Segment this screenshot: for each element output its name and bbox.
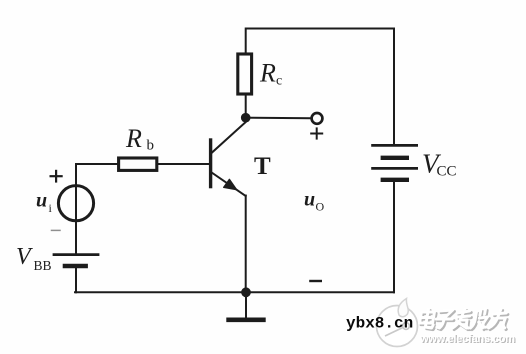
wire bottom rail (75, 291, 394, 293)
wire Rc top lead (245, 29, 247, 55)
wire input vertical (75, 164, 77, 254)
label VCC (422, 149, 457, 180)
source ui (circle) (58, 186, 93, 221)
node collector junction (241, 113, 251, 123)
minus sign input (52, 229, 61, 231)
wire emitter vertical (245, 196, 247, 293)
svg-text:ybx8.cn: ybx8.cn (346, 315, 413, 333)
wire collector node to output terminal (246, 117, 311, 120)
label Rb (125, 124, 154, 154)
wire top rail (246, 28, 394, 30)
svg-text:V: V (16, 244, 33, 270)
svg-text:b: b (147, 138, 155, 154)
resistor Rb (119, 158, 157, 170)
watermark elecfans glyphs (embossed) (419, 309, 510, 330)
ground (229, 292, 264, 320)
label Rc (259, 59, 282, 89)
watermark logo swirl (377, 299, 418, 347)
svg-text:u: u (36, 190, 47, 212)
svg-text:c: c (276, 74, 282, 89)
wire right rail lower (393, 180, 395, 292)
svg-text:CC: CC (437, 164, 457, 180)
battery VBB plate short (65, 264, 86, 269)
svg-text:T: T (254, 153, 271, 180)
minus sign output (310, 280, 320, 282)
plus sign input (51, 171, 62, 182)
label uO (304, 189, 325, 214)
svg-text:i: i (49, 201, 53, 215)
terminal output (open circle) (312, 113, 323, 124)
svg-text:O: O (316, 200, 325, 214)
plus sign output (311, 128, 322, 138)
transistor T (211, 122, 246, 196)
wire right rail upper (393, 29, 395, 146)
svg-text:BB: BB (34, 258, 52, 273)
svg-text:u: u (304, 189, 315, 211)
battery VCC plates (373, 145, 417, 179)
svg-text:www.elecfans.com: www.elecfans.com (419, 333, 515, 345)
wire VBB to bottom rail (75, 266, 77, 292)
resistor Rc (238, 54, 252, 94)
battery VBB plate long (54, 253, 98, 256)
label VBB (16, 244, 52, 273)
svg-text:R: R (259, 59, 276, 88)
wire input top (76, 163, 118, 165)
wire Rc bottom lead (245, 94, 247, 117)
wire base lead (157, 163, 209, 165)
label ui (36, 190, 53, 216)
node emitter junction (241, 287, 251, 297)
svg-text:R: R (125, 124, 142, 153)
